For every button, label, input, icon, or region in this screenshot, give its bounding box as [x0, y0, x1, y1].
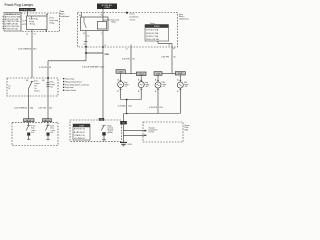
- svg-text:3.00 ORN/BLK: 3.00 ORN/BLK: [18, 49, 32, 51]
- svg-text:Switch: Switch: [34, 89, 39, 92]
- svg-text:Relay: Relay: [111, 21, 116, 23]
- svg-text:Fuse Relay Switch connector: Fuse Relay Switch connector: [65, 83, 89, 86]
- svg-text:B2: B2: [23, 24, 25, 26]
- svg-text:A FOG RLY 30: A FOG RLY 30: [74, 128, 85, 131]
- svg-text:12: 12: [168, 44, 170, 46]
- svg-text:0.35 YEL: 0.35 YEL: [38, 107, 47, 109]
- svg-text:F5 FOG LP 15A: F5 FOG LP 15A: [146, 29, 159, 32]
- svg-text:Ind: Ind: [31, 132, 33, 134]
- svg-text:F3: F3: [173, 48, 175, 50]
- svg-text:Distribution: Distribution: [130, 15, 139, 18]
- svg-text:- RF: - RF: [184, 86, 188, 88]
- svg-text:F8 DRL FD 20A: F8 DRL FD 20A: [146, 32, 159, 35]
- svg-text:145: 145: [49, 107, 53, 109]
- svg-text:CONN: CONN: [79, 126, 85, 128]
- svg-text:C2: C2: [34, 34, 36, 36]
- svg-text:A: A: [177, 79, 179, 82]
- svg-text:14: 14: [126, 48, 128, 50]
- svg-text:PNK: PNK: [105, 54, 110, 56]
- svg-text:B3: B3: [26, 80, 28, 82]
- svg-text:340: 340: [33, 49, 37, 51]
- svg-text:B1: B1: [23, 20, 25, 22]
- svg-text:150: 150: [159, 107, 163, 109]
- svg-text:TIMES: TIMES: [104, 7, 111, 9]
- svg-text:Fog Lamp: Fog Lamp: [65, 87, 73, 89]
- svg-text:D B+ FEED 40: D B+ FEED 40: [74, 138, 85, 140]
- svg-text:3.00 ORN/BLK: 3.00 ORN/BLK: [14, 107, 28, 109]
- svg-text:- LF: - LF: [162, 86, 166, 88]
- svg-text:Underhood: Underhood: [60, 15, 69, 18]
- svg-text:Relay: Relay: [30, 24, 35, 26]
- svg-text:34: 34: [173, 56, 176, 58]
- svg-text:B: B: [155, 91, 157, 93]
- svg-text:B: B: [177, 91, 179, 93]
- svg-text:A2: A2: [42, 79, 44, 82]
- svg-text:0.35 DK GRN/WHT 1047: 0.35 DK GRN/WHT 1047: [82, 67, 105, 69]
- svg-text:Cell 14: Cell 14: [149, 132, 155, 134]
- svg-text:Power: Power: [130, 13, 135, 15]
- svg-text:F6 HD LOW 15A: F6 HD LOW 15A: [146, 38, 160, 41]
- svg-text:C2: C2: [87, 36, 89, 38]
- svg-text:Relay Compartment: Relay Compartment: [65, 80, 82, 83]
- svg-text:- LF: - LF: [124, 86, 128, 88]
- svg-text:Ind: Ind: [50, 86, 52, 88]
- svg-text:0.35 PPL: 0.35 PPL: [122, 59, 131, 61]
- svg-text:Underhood: Underhood: [179, 17, 188, 20]
- svg-text:C100: C100: [139, 74, 143, 76]
- svg-text:30: 30: [100, 14, 102, 16]
- svg-text:A: A: [155, 79, 157, 82]
- svg-text:Switch Detail: Switch Detail: [65, 89, 76, 92]
- svg-text:14: 14: [26, 34, 28, 36]
- svg-text:G114: G114: [127, 144, 131, 146]
- svg-text:Ind: Ind: [51, 132, 53, 134]
- svg-text:150: 150: [128, 105, 132, 107]
- svg-text:2: 2: [101, 33, 102, 35]
- svg-text:C101: C101: [178, 73, 182, 75]
- svg-text:0.35 PPL: 0.35 PPL: [39, 67, 48, 69]
- svg-text:C2: C2: [122, 123, 124, 125]
- svg-text:C105: C105: [119, 71, 123, 73]
- svg-text:B: B: [138, 91, 140, 93]
- svg-text:FUSES: FUSES: [154, 26, 161, 28]
- svg-text:C1: C1: [83, 44, 85, 46]
- svg-text:14: 14: [8, 88, 10, 90]
- svg-text:Relay: Relay: [50, 23, 55, 25]
- svg-text:F IGN 1 FD 10A: F IGN 1 FD 10A: [5, 27, 18, 30]
- svg-text:440: 440: [30, 107, 34, 109]
- svg-text:(BCM): (BCM): [108, 132, 113, 134]
- svg-text:Front Fog Lamps: Front Fog Lamps: [5, 3, 34, 7]
- svg-text:34: 34: [49, 67, 52, 69]
- svg-text:85: 85: [83, 33, 85, 35]
- svg-text:A: A: [118, 79, 120, 82]
- svg-text:B: B: [117, 91, 119, 93]
- svg-text:Cell 10: Cell 10: [130, 19, 136, 21]
- svg-text:0.35 BLK: 0.35 BLK: [149, 107, 158, 109]
- svg-text:F2 PRK LP 10A: F2 PRK LP 10A: [146, 35, 159, 38]
- svg-text:A: A: [138, 79, 140, 82]
- svg-text:0.35 BLK: 0.35 BLK: [118, 105, 127, 107]
- svg-text:- RF: - RF: [145, 86, 149, 88]
- svg-text:86: 86: [79, 15, 81, 17]
- svg-text:B GND SIG 12: B GND SIG 12: [74, 132, 85, 134]
- svg-text:DRL: DRL: [185, 130, 189, 132]
- svg-text:C PARK LP 10: C PARK LP 10: [74, 134, 85, 137]
- svg-text:C1: C1: [104, 45, 106, 47]
- svg-text:A5 C1: A5 C1: [45, 119, 50, 122]
- svg-text:C106: C106: [156, 73, 160, 75]
- svg-text:34: 34: [132, 59, 135, 61]
- svg-text:B6: B6: [101, 119, 103, 121]
- svg-text:Fog Lamps: Fog Lamps: [65, 79, 74, 81]
- svg-text:0.35 PPL: 0.35 PPL: [161, 56, 170, 58]
